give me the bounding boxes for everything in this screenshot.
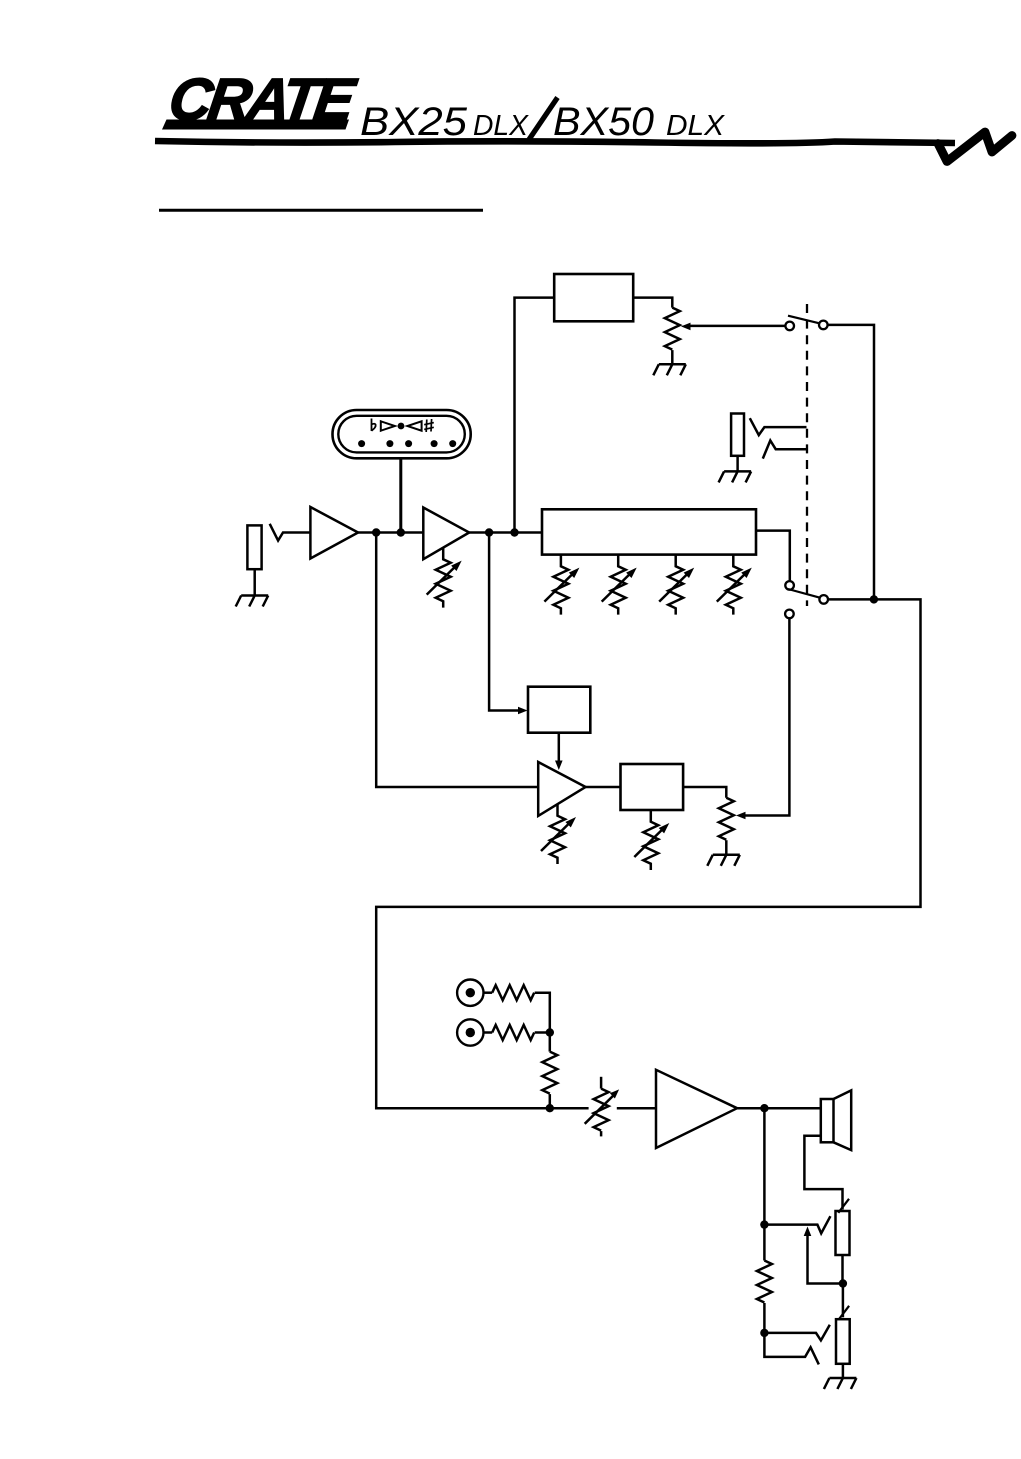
potentiometer chorus depth VR4 xyxy=(634,810,669,870)
svg-text:BX25: BX25 xyxy=(360,100,468,144)
tuner center LED dot xyxy=(398,423,405,430)
tuner display pill outer xyxy=(333,410,471,458)
tuner note LED dots row xyxy=(358,440,365,447)
resistor R1 headphone xyxy=(836,1211,850,1255)
potentiometer EQ band 1 xyxy=(544,555,579,615)
op-amp U4 chorus xyxy=(538,762,585,816)
node right bus junction xyxy=(870,595,878,603)
potentiometer chorus rate VR3 xyxy=(541,804,576,864)
ground headphone xyxy=(824,1378,857,1389)
wire R1 down xyxy=(841,1255,844,1284)
wire RCA L to sum node xyxy=(535,993,550,1033)
node tuner tap xyxy=(397,528,405,536)
wire RCA L lead xyxy=(484,991,493,994)
node RCA sum xyxy=(546,1028,554,1036)
wire chorus feed down xyxy=(489,533,520,711)
op-amp U2 gain stage xyxy=(423,508,469,560)
potentiometer EQ band 2 xyxy=(602,555,637,615)
potentiometer EQ band 3 xyxy=(659,555,694,615)
wire jack to ground xyxy=(253,569,256,595)
wire amp out down to headphone contacts xyxy=(763,1108,766,1224)
ground input jack xyxy=(236,596,269,607)
tuner sharp symbol xyxy=(424,419,434,432)
resistor R2 divider xyxy=(763,1225,766,1261)
node speaker tap xyxy=(760,1104,768,1112)
svg-text:BX50: BX50 xyxy=(553,100,654,144)
wire RCA R lead xyxy=(484,1031,493,1034)
wire U1 out to U2 xyxy=(358,531,423,534)
RCA jack CD input R xyxy=(457,1019,483,1045)
wire U2 out to EQ xyxy=(469,531,542,534)
switch SW1b channel select xyxy=(785,581,794,590)
resistor RCA R xyxy=(492,1025,534,1040)
block chorus LFO U6 xyxy=(528,687,590,733)
section underline xyxy=(159,209,483,212)
thick hand-drawn rule under header xyxy=(155,141,955,143)
wire divider to R3 xyxy=(842,1284,845,1318)
op-amp U8 power amp xyxy=(656,1070,737,1148)
resistor R3 headphone xyxy=(836,1319,850,1364)
potentiometer EQ band 4 xyxy=(717,555,752,615)
wire power amp out xyxy=(737,1107,821,1110)
svg-text:DLX: DLX xyxy=(473,110,530,142)
switch SW1a footswitch contact upper xyxy=(785,322,794,331)
wire speaker return xyxy=(804,1136,842,1210)
slash separator xyxy=(529,98,558,140)
wire dry signal to chorus amp xyxy=(376,533,538,788)
wire SW1b lower throw down to chorus mix xyxy=(744,618,789,815)
wire limiter to level pot xyxy=(633,298,672,308)
wire filter to mix pot xyxy=(683,787,726,798)
headphone jack contact 3 xyxy=(764,1333,818,1365)
tuner display pill inner xyxy=(338,416,465,453)
node headphone contact 1 xyxy=(760,1220,768,1228)
node main bus CD join xyxy=(546,1104,554,1112)
tuner flat symbol xyxy=(372,419,376,432)
tuner up-arrow LED (left-pointing triangle) xyxy=(407,421,421,430)
headphone jack contact 1 xyxy=(764,1216,830,1233)
wiper arrow into VR2 xyxy=(689,325,785,328)
potentiometer limiter level VR2 xyxy=(665,308,680,350)
wire U4 to filter block xyxy=(586,786,621,789)
ground VR5 xyxy=(707,855,740,866)
resistor RCA sum to bus xyxy=(549,1033,552,1052)
arrow LFO modulation into U4 xyxy=(558,733,561,762)
squiggle at right end of rule xyxy=(938,132,1012,162)
svg-text:DLX: DLX xyxy=(666,110,726,142)
potentiometer gain VR1 xyxy=(427,548,462,608)
potentiometer chorus mix VR5 xyxy=(719,798,734,840)
ground J2 xyxy=(719,471,752,482)
wire R3 to ground xyxy=(842,1364,845,1378)
speaker LS1 xyxy=(821,1099,834,1142)
CRATE logo wordmark xyxy=(165,66,361,133)
dashed mechanical link footswitch xyxy=(806,304,808,606)
block graphic EQ U3 xyxy=(542,509,756,554)
block chorus filter U7 xyxy=(621,764,684,810)
potentiometer master volume VR6 xyxy=(600,1077,603,1089)
node chorus feed xyxy=(485,528,493,536)
wire VR5 to ground xyxy=(725,840,728,855)
wire SW1a to right bus xyxy=(828,325,874,600)
wire plug actuator up arrow xyxy=(808,1236,843,1284)
node chorus send lower xyxy=(372,528,380,536)
node headphone contact 2 xyxy=(760,1329,768,1337)
resistor RCA L xyxy=(492,985,534,1000)
tuner down-arrow LED (right-pointing triangle) xyxy=(381,421,395,430)
node headphone divider xyxy=(839,1279,847,1287)
wire loop up to limiter block xyxy=(515,298,555,533)
input jack J1 xyxy=(247,525,261,569)
op-amp U1 preamp xyxy=(310,507,358,559)
node reverb loop tap xyxy=(510,528,518,536)
wire tuner stem xyxy=(399,458,402,532)
wire volume to power amp xyxy=(617,1107,656,1110)
input jack tip contact xyxy=(270,524,311,541)
wire J2 to ground xyxy=(736,456,739,472)
headphone jack tip contact slash xyxy=(838,1199,849,1213)
wire EQ out down to SW1b xyxy=(756,531,790,581)
ground VR2 xyxy=(653,364,686,375)
footswitch jack contact lower xyxy=(763,441,807,459)
headphone jack ring contact slash xyxy=(839,1306,849,1320)
wire VR2 to ground xyxy=(671,350,674,364)
wire RCA R to sum node xyxy=(535,1031,550,1034)
footswitch jack contact upper xyxy=(750,418,807,435)
RCA jack CD input L xyxy=(457,980,483,1006)
CRATE logo underline bar xyxy=(162,120,349,130)
wire SW1b output bus to power amp section xyxy=(376,599,920,1108)
footswitch jack J2 xyxy=(731,414,744,456)
headphone jack contact 2 xyxy=(764,1325,829,1341)
block limiter U5 xyxy=(554,274,633,321)
